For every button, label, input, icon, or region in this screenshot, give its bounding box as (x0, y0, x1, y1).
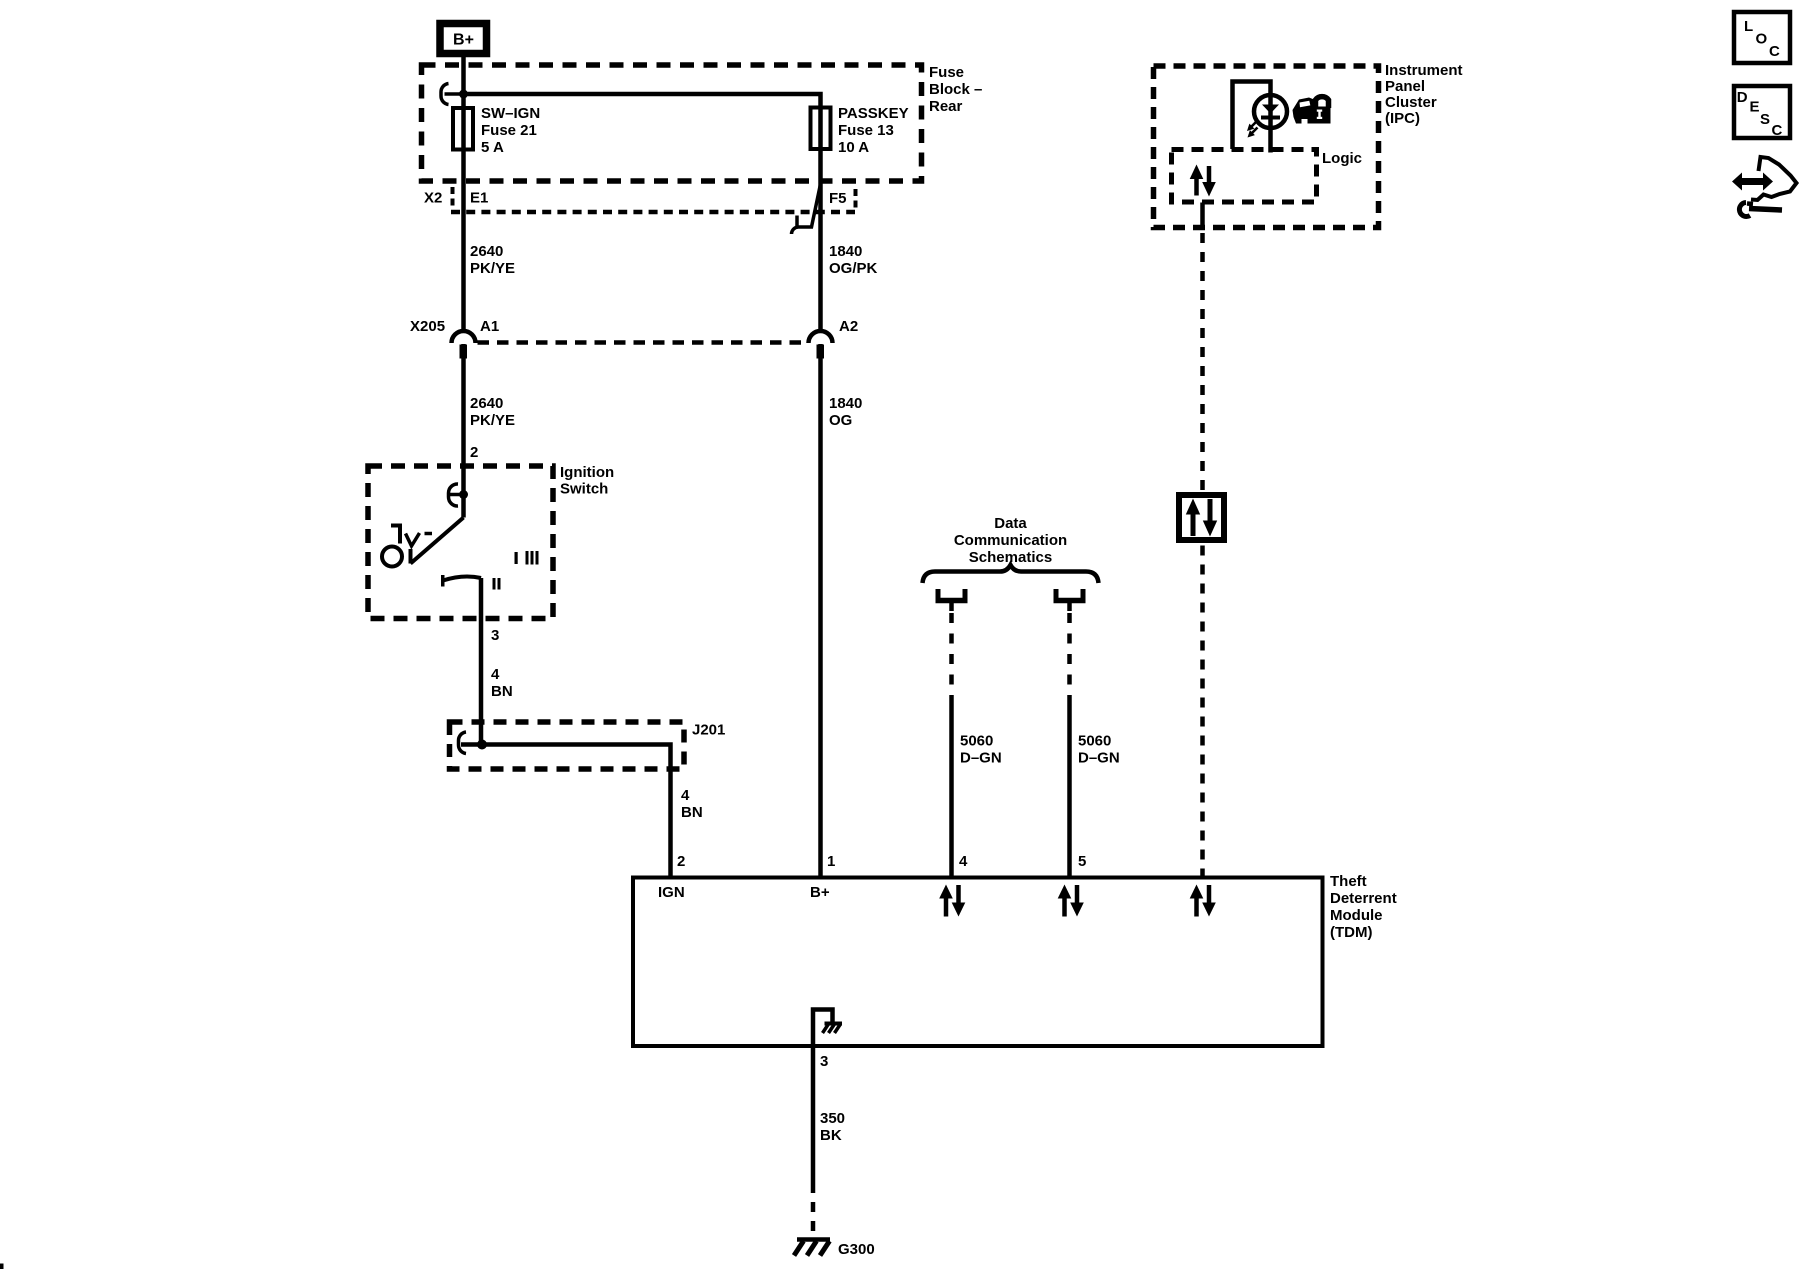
svg-text:E1: E1 (470, 190, 488, 207)
svg-text:Communication: Communication (954, 532, 1067, 549)
svg-text:BK: BK (820, 1127, 842, 1144)
svg-text:Deterrent: Deterrent (1330, 890, 1397, 907)
connector X2 right tick (854, 189, 858, 209)
svg-text:(TDM): (TDM) (1330, 924, 1372, 941)
DESC reference box (1734, 86, 1790, 139)
ignition key dash mark (425, 532, 433, 536)
connector X2 dotted line (451, 210, 855, 215)
security indicator LED circle (1254, 95, 1287, 128)
ignition switch dashed box (368, 466, 553, 619)
dashed data wire right (1067, 613, 1072, 700)
LED cathode bar (1261, 116, 1280, 120)
splice J201 clip (458, 732, 466, 754)
wire label 4 BN upper (491, 666, 513, 700)
svg-text:Instrument: Instrument (1385, 62, 1463, 79)
svg-text:A2: A2 (839, 318, 858, 335)
wire data to TDM pin 4 (949, 700, 954, 878)
svg-text:BN: BN (681, 804, 703, 821)
svg-text:Rear: Rear (929, 98, 963, 115)
svg-text:2: 2 (470, 444, 478, 461)
svg-text:1: 1 (827, 853, 835, 870)
security car lock icon (1293, 97, 1331, 124)
svg-text:Logic: Logic (1322, 150, 1362, 167)
svg-text:F5: F5 (829, 190, 847, 207)
svg-text:PK/YE: PK/YE (470, 260, 515, 277)
label Ignition Switch (560, 464, 614, 498)
label Data Communication Schematics (954, 515, 1067, 566)
svg-text:Data: Data (994, 515, 1027, 532)
TDM serial data arrows IPC (1190, 885, 1216, 917)
svg-text:X2: X2 (424, 190, 442, 207)
ignition key V mark (406, 533, 420, 546)
splice J201 junction dot (477, 740, 487, 750)
svg-text:X205: X205 (410, 318, 445, 335)
junction dot feed (459, 90, 468, 99)
theft deterrent module box (633, 878, 1323, 1047)
label fuse 13 (838, 105, 909, 156)
svg-text:OG: OG (829, 412, 852, 429)
TDM serial data arrows pin 5 (1058, 885, 1084, 917)
fuse SW-IGN Fuse 21 (453, 108, 473, 150)
svg-text:SW–IGN: SW–IGN (481, 105, 540, 122)
LED emission arrows (1247, 120, 1258, 138)
logic dashed box (1172, 150, 1317, 203)
TDM serial data arrows pin 4 (939, 885, 965, 917)
instrument panel cluster dashed box (1154, 66, 1379, 228)
svg-text:Fuse 21: Fuse 21 (481, 122, 537, 139)
svg-text:OG/PK: OG/PK (829, 260, 878, 277)
svg-text:Fuse: Fuse (929, 64, 964, 81)
svg-text:D–GN: D–GN (1078, 750, 1120, 767)
clip terminal at fuse feed junction (441, 84, 464, 105)
svg-text:10 A: 10 A (838, 139, 869, 156)
dashed data wire left (949, 613, 954, 700)
ignition switch clip terminal (449, 484, 464, 506)
svg-text:BN: BN (491, 683, 513, 700)
wire label 350 BK (820, 1110, 845, 1144)
terminal F5 clip stub (795, 216, 799, 228)
svg-text:3: 3 (491, 627, 499, 644)
svg-text:5 A: 5 A (481, 139, 504, 156)
ignition key bracket (391, 526, 400, 544)
fuse block rear dashed box (422, 65, 922, 181)
connector X2 left tick (451, 187, 455, 207)
svg-text:2640: 2640 (470, 243, 503, 260)
terminal F5 clip (792, 184, 821, 234)
svg-text:S: S (1760, 111, 1770, 128)
wire label 1840 OG (829, 395, 862, 429)
svg-text:5060: 5060 (960, 733, 993, 750)
svg-text:D–GN: D–GN (960, 750, 1002, 767)
connector X2 labels (424, 190, 847, 208)
wire switch output pin 3 (479, 578, 484, 745)
dashed wire to G300 (811, 1183, 816, 1237)
label Fuse Block Rear (929, 64, 982, 115)
svg-text:2640: 2640 (470, 395, 503, 412)
LOC reference box (1734, 12, 1790, 63)
connector X205 dashed line (478, 340, 808, 345)
serial data connector box (1179, 495, 1224, 540)
label Theft Deterrent Module (1330, 873, 1397, 941)
position I tick (441, 575, 445, 587)
label Instrument Panel Cluster (1385, 62, 1463, 127)
svg-text:B+: B+ (810, 884, 830, 901)
logic serial data arrows (1190, 165, 1216, 197)
svg-text:C: C (1772, 122, 1783, 139)
TDM internal chassis ground symbol (823, 1024, 843, 1034)
svg-text:J201: J201 (692, 722, 725, 739)
svg-text:Block –: Block – (929, 81, 982, 98)
diagnostic navigation icon (1732, 157, 1797, 216)
wire label 5060 D-GN right (1078, 733, 1120, 767)
svg-text:C: C (1769, 43, 1780, 60)
wire label 4 BN lower (681, 787, 703, 821)
fuse PASSKEY Fuse 13 (811, 108, 831, 150)
LED diode triangle (1262, 105, 1279, 114)
dashed wire IPC to connector box (1200, 233, 1205, 492)
wire logic to IPC edge (1200, 203, 1205, 230)
svg-text:L: L (1744, 18, 1753, 35)
data bus stub right (1054, 589, 1086, 611)
svg-text:IGN: IGN (658, 884, 685, 901)
svg-text:G300: G300 (838, 1241, 875, 1258)
connector X205 terminal A1 arc (452, 331, 476, 343)
ignition switch junction dot (459, 490, 468, 499)
data bus stub left (936, 589, 968, 611)
page edge mark (0, 1264, 4, 1270)
svg-text:Ignition: Ignition (560, 464, 614, 481)
wire branch to passkey fuse (464, 94, 821, 108)
svg-text:2: 2 (677, 853, 685, 870)
wire passkey fuse down (818, 108, 823, 331)
IPC indicator loop wire (1233, 82, 1271, 153)
svg-text:1840: 1840 (829, 243, 862, 260)
svg-text:Fuse 13: Fuse 13 (838, 122, 894, 139)
svg-text:5060: 5060 (1078, 733, 1111, 750)
svg-text:350: 350 (820, 1110, 845, 1127)
wire J201 horizontal (461, 745, 671, 878)
svg-text:D: D (1737, 89, 1748, 106)
TDM internal ground wire (813, 1010, 833, 1047)
svg-text:Module: Module (1330, 907, 1383, 924)
wire label 2640 PK/YE upper (470, 243, 515, 277)
svg-text:E: E (1750, 99, 1760, 116)
svg-text:Switch: Switch (560, 481, 608, 498)
wire label 5060 D-GN left (960, 733, 1002, 767)
position mark I III (515, 551, 539, 565)
label fuse 21 (481, 105, 540, 156)
svg-text:PASSKEY: PASSKEY (838, 105, 909, 122)
wire TDM pin 3 ground (811, 1046, 816, 1183)
ignition switch arm (411, 518, 464, 564)
connector X205 terminal A2 nub (817, 345, 825, 359)
svg-text:4: 4 (491, 666, 500, 683)
wire label 2640 PK/YE lower (470, 395, 515, 429)
position mark II (493, 578, 501, 590)
connector X205 terminal A1 nub (460, 345, 468, 359)
power symbol B+ (440, 24, 487, 54)
svg-text:A1: A1 (480, 318, 499, 335)
wire data to TDM pin 5 (1067, 700, 1072, 878)
ignition key circle (382, 547, 402, 567)
data schematics brace (923, 565, 1099, 583)
svg-text:(IPC): (IPC) (1385, 110, 1420, 127)
connector X205 labels (410, 318, 858, 335)
wire A1 to ignition switch (461, 344, 466, 518)
svg-text:4: 4 (681, 787, 690, 804)
wire label 1840 OG/PK (829, 243, 878, 277)
svg-text:Theft: Theft (1330, 873, 1367, 890)
dashed wire connector box to TDM (1200, 546, 1205, 878)
svg-text:5: 5 (1078, 853, 1086, 870)
wire A2 to TDM pin 1 (818, 344, 823, 878)
connector box arrows (1186, 499, 1217, 537)
connector X205 terminal A2 arc (809, 331, 833, 343)
svg-text:Cluster: Cluster (1385, 94, 1437, 111)
splice J201 dashed box (450, 722, 685, 769)
svg-text:PK/YE: PK/YE (470, 412, 515, 429)
svg-text:4: 4 (959, 853, 968, 870)
svg-text:1840: 1840 (829, 395, 862, 412)
svg-text:3: 3 (820, 1053, 828, 1070)
svg-text:B+: B+ (453, 32, 474, 49)
svg-text:O: O (1756, 31, 1768, 48)
svg-text:Panel: Panel (1385, 78, 1425, 95)
ground G300 symbol (794, 1240, 830, 1256)
wire B+ to fuse junction (461, 57, 466, 331)
switch contact arc (443, 576, 481, 580)
